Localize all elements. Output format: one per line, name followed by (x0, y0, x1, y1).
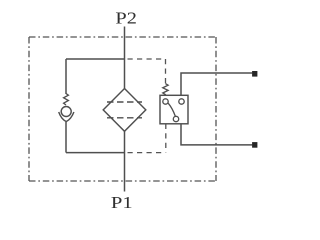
wire switch to lower terminal (181, 124, 252, 145)
pressure switch S1 body (160, 95, 188, 124)
enclosure right edge (outer dash-dot boundary) (215, 37, 217, 181)
check valve CV1 ball (61, 107, 71, 117)
pressure switch S1 contact terminal right (179, 99, 184, 104)
terminal lower (electric connection) (252, 142, 257, 148)
pressure switch S1 spring (163, 84, 168, 96)
wire branch top (node at main line) (66, 58, 125, 60)
filter F1 element upper dashed line (107, 101, 142, 103)
wire filter bottom to P1 (124, 131, 126, 191)
assembly enclosure right edge lower (165, 124, 167, 153)
assembly enclosure bottom edge (128, 152, 165, 154)
wire check-valve branch lower (65, 122, 67, 153)
assembly enclosure (inner dashed box) top edge (128, 58, 166, 60)
wire check-valve branch upper (65, 59, 67, 94)
wire switch to upper terminal (181, 73, 252, 95)
check valve CV1 spring (64, 94, 69, 106)
check valve CV1 seat (59, 112, 74, 122)
svg-text:P2: P2 (115, 8, 136, 27)
pressure switch S1 contact terminal left (163, 99, 168, 104)
pressure switch S1 contact terminal bottom (173, 116, 178, 121)
enclosure top edge (outer dash-dot boundary) (29, 36, 216, 38)
filter F1 body (diamond) (103, 89, 146, 132)
wire P2 to filter top (124, 27, 126, 89)
enclosure left edge (outer dash-dot boundary) (28, 37, 30, 181)
pressure switch S1 contact arm (168, 103, 175, 116)
svg-text:P1: P1 (111, 193, 133, 212)
assembly enclosure right edge upper (165, 59, 167, 84)
terminal upper (electric connection) (252, 71, 257, 77)
enclosure bottom edge (outer dash-dot boundary) (29, 180, 216, 182)
filter F1 element lower dashed line (107, 117, 142, 119)
wire branch bottom (66, 152, 125, 154)
